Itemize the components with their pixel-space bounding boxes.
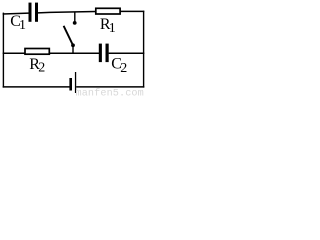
battery bbox=[69, 72, 76, 93]
wire middle rail left segment bbox=[3, 52, 25, 54]
label R1 bbox=[100, 16, 116, 36]
wire right edge bbox=[143, 11, 145, 88]
resistor R1 bbox=[96, 8, 120, 14]
capacitor C2 bbox=[99, 44, 109, 63]
wire bottom rail left segment bbox=[3, 86, 70, 88]
svg-text:2: 2 bbox=[38, 60, 45, 75]
wire bottom rail right segment bbox=[76, 86, 144, 88]
wire middle rail center segment bbox=[49, 52, 99, 54]
svg-text:1: 1 bbox=[109, 21, 116, 36]
label R2 bbox=[29, 56, 45, 75]
switch S (open) bbox=[64, 13, 77, 54]
svg-text:manfen5.com: manfen5.com bbox=[76, 87, 144, 96]
wire top rail right segment bbox=[120, 10, 144, 12]
wire top rail left segment bbox=[3, 12, 29, 15]
svg-text:2: 2 bbox=[120, 61, 127, 76]
resistor R2 bbox=[25, 49, 49, 55]
wire top rail middle segment bbox=[38, 12, 96, 13]
wire left edge bbox=[2, 13, 4, 88]
label C2 bbox=[111, 55, 127, 76]
capacitor C1 bbox=[29, 3, 39, 22]
svg-text:1: 1 bbox=[19, 18, 26, 33]
wire middle rail right segment bbox=[109, 52, 145, 54]
label C1 bbox=[10, 13, 26, 33]
